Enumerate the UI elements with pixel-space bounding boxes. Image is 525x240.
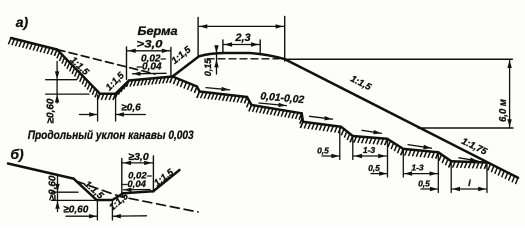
berm cross-slope arrow (b) (124, 189, 151, 191)
hatching bench tread 4 (a) (300, 122, 341, 133)
fill slope left 1:1.5 (a) (173, 56, 200, 76)
bench tread 2 (a) (200, 92, 248, 98)
berm cross-slope arrow (a) (133, 72, 167, 75)
berm dimension >3,0 (a) (126, 47, 128, 80)
hatching bench riser 3 (a) (299, 113, 303, 128)
hatching bench riser 1 (a) (194, 87, 199, 98)
hatching bench riser 2 (a) (244, 97, 251, 111)
bench riser 5 (a) (387, 139, 403, 149)
ditch bottom (b) (97, 199, 113, 202)
berm surface (b) (123, 191, 153, 193)
svg-text:0,5: 0,5 (317, 146, 329, 156)
ditch right slope (a) (116, 81, 129, 94)
svg-text:≥0,60: ≥0,60 (63, 204, 88, 216)
overall top dimension (a) (197, 18, 199, 57)
hatching beyond toe (a) (484, 163, 518, 185)
dimension 0,5 row3 (a) (421, 188, 438, 190)
hatching bench riser 4 (a) (338, 127, 352, 143)
dimension 0,15 crown height (a) (216, 46, 218, 74)
dimension >=0,60 ditch bottom width (b) (96, 201, 98, 221)
drainage arrow tread 6 (a) (408, 145, 432, 149)
dashed original ground surface (a) (57, 50, 155, 75)
dashed line under crown (a) (207, 58, 279, 60)
svg-text:0,5: 0,5 (418, 178, 430, 188)
svg-text:i: i (468, 178, 471, 189)
svg-text:≥3,0: ≥3,0 (128, 151, 149, 163)
svg-text:1-3: 1-3 (363, 145, 376, 155)
hatching bench riser 5 (a) (385, 139, 404, 155)
dimension i row3 (a) (452, 188, 487, 190)
bench riser 1 (a) (197, 87, 200, 92)
berm surface (a) (129, 77, 173, 81)
bench riser 2 (a) (247, 97, 252, 105)
svg-text:–0,04: –0,04 (122, 179, 146, 190)
embankment crest with crown (a) (199, 53, 285, 59)
svg-text:0,5: 0,5 (368, 163, 380, 173)
dimension >=0,6 ditch bottom width (a) (97, 95, 99, 121)
hatching under hillside (a) (8, 38, 57, 56)
hatching bench riser 6 (a) (436, 152, 452, 167)
svg-text:Продольный уклон канавы 0,003: Продольный уклон канавы 0,003 (28, 128, 194, 142)
svg-text:2,3: 2,3 (234, 32, 250, 44)
bench riser 4 (a) (341, 127, 353, 136)
drainage arrow tread 3 (a) (259, 103, 287, 106)
dimension 6,0 m slope height (a) (285, 58, 512, 60)
bench tread 4 (a) (303, 122, 341, 127)
hatching bench tread 6 (a) (401, 149, 439, 159)
svg-text:1-3: 1-3 (411, 163, 424, 173)
drainage arrow tread 7 (a) (459, 158, 478, 161)
dimension 0,5 row2 (a) (371, 173, 387, 175)
svg-text:а): а) (16, 14, 29, 30)
bench tread 3 (a) (252, 105, 302, 113)
hatching bench tread 7 (a) (449, 161, 487, 169)
hatching under berm (a) (126, 77, 172, 87)
svg-text:0,15: 0,15 (203, 58, 213, 77)
svg-text:б): б) (10, 146, 24, 162)
bench tread 5 (a) (353, 136, 388, 139)
drainage arrow tread 5 (a) (362, 130, 382, 133)
svg-text:–0,04: –0,04 (136, 61, 161, 72)
drainage arrow tread 4 (a) (310, 116, 333, 119)
ditch bottom (a) (100, 92, 116, 95)
dimension 1-3 row1 (a) (354, 155, 387, 157)
hatching ditch bottom (a) (97, 94, 115, 100)
drainage arrow tread 2 (a) (206, 88, 230, 90)
svg-text:Берма: Берма (138, 26, 179, 38)
extension lines for bench dimensions (a) (339, 128, 341, 160)
svg-text:≥0,60: ≥0,60 (48, 175, 59, 200)
hatching ditch left slope (a) (54, 50, 100, 101)
hatching ground segment below berm (a) (170, 77, 197, 93)
dashed original ground (b) (76, 181, 198, 212)
dimension >=0.60 ditch depth (a) (56, 61, 58, 103)
ditch right slope (b) (112, 193, 123, 200)
hatching bench tread 3 (a) (249, 105, 302, 120)
hatching bench tread 2 (a) (197, 92, 247, 104)
main embankment slope (a) (285, 59, 518, 178)
bench riser 6 (a) (438, 152, 451, 161)
hatching ditch right slope (a) (113, 81, 129, 101)
hatching bench tread 5 (a) (350, 136, 387, 145)
bench tread 6 (a) (403, 149, 438, 152)
svg-text:≥0,6: ≥0,6 (121, 103, 141, 114)
fill slope (b) (153, 170, 179, 191)
ditch left slope (b) (74, 179, 97, 200)
hillside ground line (a) (11, 38, 57, 50)
natural ground (b) (8, 164, 74, 179)
dimension 2,3 (a) (222, 40, 224, 54)
dimension >=0,60 ditch depth (b) (57, 175, 59, 212)
svg-text:≥0,60: ≥0,60 (46, 98, 57, 123)
bench riser 3 (a) (302, 113, 303, 121)
dimension >=3,0 berm (b) (121, 159, 123, 194)
svg-text:6,0 м: 6,0 м (498, 98, 509, 122)
dimension 0,5 row1 (a) (322, 155, 339, 157)
svg-text:>3,0: >3,0 (137, 38, 164, 50)
ditch left slope 1:1.5 (a) (57, 50, 100, 94)
ground segment below berm (a) (173, 77, 198, 87)
bench tread 7 (a) (451, 161, 487, 162)
dimension 1-3 row2 (a) (404, 173, 438, 175)
